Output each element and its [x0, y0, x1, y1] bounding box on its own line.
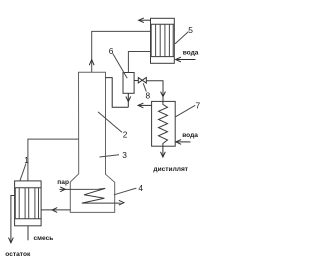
svg-text:остаток: остаток [5, 251, 31, 258]
column 2/3 with still (cube) body [70, 72, 114, 212]
label 6 pointer [113, 54, 127, 79]
svg-text:смесь: смесь [34, 235, 54, 242]
svg-text:4: 4 [138, 183, 143, 193]
arrowhead water inlet (left) [176, 57, 181, 62]
wire: residue out of exchanger, down arrow [11, 196, 15, 243]
wire: vessel 6 to valve 8 [134, 80, 138, 82]
arrowhead vessel 6 outlet (down) [126, 97, 131, 102]
wire: mixture feed bottom [27, 226, 29, 241]
wire: steam inlet line [59, 188, 105, 189]
svg-text:2: 2 [123, 130, 128, 140]
arrowhead steam inlet (right) [60, 187, 65, 192]
cooler U7 internal coil [159, 101, 168, 146]
label 8 pointer [143, 83, 146, 91]
valve 8 bowtie [138, 78, 146, 84]
wire: valve 8 to cooler 7 [147, 81, 163, 102]
arrowhead residue line (left) [52, 208, 57, 213]
svg-text:5: 5 [188, 25, 193, 35]
wire: feed line into column [28, 139, 79, 181]
arrowhead residue (down) [9, 238, 14, 243]
wire: distillate outlet down [162, 146, 164, 157]
arrowhead cooler water outlet (left) [138, 103, 143, 108]
condenser U5 tubes [151, 24, 173, 56]
wire: vessel 6 outlet down [127, 93, 129, 107]
heat exchanger U1 tubes [15, 188, 38, 219]
arrowhead into cooler (down) [161, 92, 166, 97]
svg-text:дистиллят: дистиллят [153, 166, 188, 173]
arrowhead distillate (down) [161, 152, 166, 157]
wire: condensate line from condenser to vessel 6 [128, 52, 150, 73]
heating coil 4 zigzag [82, 188, 121, 203]
label 5 pointer [175, 32, 188, 44]
condenser U5 header lines [151, 24, 175, 56]
svg-text:1: 1 [24, 155, 29, 165]
wire: cooling water inlet, condenser bottom right [176, 59, 195, 61]
heat exchanger U1 outer shell [15, 181, 41, 226]
svg-text:6: 6 [109, 46, 114, 56]
wire: cooler water outlet left [139, 104, 152, 106]
wire: reflux return to column [106, 78, 129, 108]
condenser U5 outer shell [151, 18, 175, 63]
wire: coil outlet with arrowhead (right) [119, 200, 124, 205]
heat exchanger U1 header lines [15, 188, 41, 219]
label 7 pointer [176, 105, 196, 117]
wire: residue line from still to exchanger [41, 209, 70, 211]
cooler U7 shell [152, 101, 176, 146]
label 1 pointer [20, 164, 26, 181]
arrowhead on vapor riser (up) [89, 60, 94, 66]
svg-text:8: 8 [146, 91, 151, 101]
svg-text:вода: вода [182, 132, 198, 139]
arrowhead cooler water inlet (left) [176, 140, 181, 145]
arrowhead water outlet (left) [139, 18, 144, 23]
svg-text:вода: вода [183, 49, 199, 56]
wire: cooler water inlet right [176, 141, 190, 143]
svg-text:пар: пар [57, 179, 69, 186]
svg-text:3: 3 [122, 150, 127, 160]
wire: cooling water outlet, condenser top left [139, 19, 151, 21]
svg-text:7: 7 [196, 100, 201, 110]
label 3 pointer [100, 155, 120, 157]
label 4 pointer [114, 188, 136, 195]
reflux divider vessel 6 [123, 73, 134, 94]
wire: vapor riser from column top [92, 31, 151, 72]
label 2 pointer [98, 112, 122, 132]
